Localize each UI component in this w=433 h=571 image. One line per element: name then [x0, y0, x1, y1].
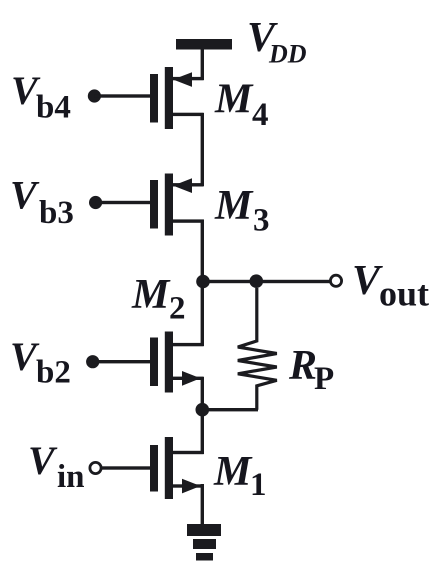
label Vb4	[11, 68, 71, 126]
M4 source lead	[173, 77, 204, 80]
wire output node to Vout terminal	[203, 280, 330, 283]
ground	[187, 524, 221, 561]
svg-text:3: 3	[253, 203, 270, 239]
svg-text:V: V	[10, 173, 40, 218]
svg-text:V: V	[28, 438, 58, 483]
M3 gate bar	[150, 180, 158, 229]
transistor M1 (NMOS input device)	[150, 437, 204, 499]
label Vout	[352, 258, 429, 314]
label M4	[214, 77, 269, 134]
wire Vin to M1 gate	[101, 466, 150, 469]
node Vb4 dot	[88, 89, 101, 102]
terminal Vin (open circle)	[90, 462, 101, 473]
label M2	[131, 272, 186, 327]
transistor M3 (PMOS cascode)	[150, 174, 204, 236]
wire VDD to M4 source	[201, 49, 204, 80]
node X junction dot	[196, 403, 210, 417]
label Vb2	[10, 334, 71, 391]
node Vb3 dot	[89, 196, 102, 209]
M4 gate bar	[150, 74, 158, 123]
transistor M4 (PMOS cascode load)	[150, 67, 204, 129]
wire Vb2 to M2 gate	[93, 360, 150, 363]
M1 source lead	[173, 484, 204, 487]
M2 gate bar	[150, 338, 158, 387]
wire M2 source to node X and M1 drain	[201, 377, 204, 454]
svg-text:4: 4	[252, 97, 269, 133]
label Vin	[28, 438, 85, 495]
M4 channel bar	[165, 67, 173, 129]
node output junction dot A	[196, 275, 210, 289]
node junction dot B (RP tap)	[249, 274, 263, 288]
svg-text:P: P	[314, 361, 334, 397]
M4 drain lead	[173, 113, 204, 116]
svg-text:b3: b3	[39, 195, 74, 231]
svg-text:2: 2	[169, 291, 186, 327]
M3 drain lead	[173, 219, 204, 222]
M2 source arrow	[182, 371, 201, 386]
M3 channel bar	[165, 174, 173, 236]
svg-text:R: R	[288, 343, 317, 389]
M3 source arrow	[173, 178, 192, 193]
label VDD	[247, 15, 307, 69]
label M3	[214, 183, 270, 239]
M2 source lead	[173, 377, 204, 380]
M2 drain lead	[173, 343, 204, 346]
label M1	[213, 449, 267, 503]
VDD supply bar	[176, 39, 232, 50]
wire Vb3 to M3 gate	[96, 201, 150, 204]
svg-text:1: 1	[250, 467, 267, 503]
svg-text:M: M	[214, 77, 254, 123]
M1 gate bar	[150, 445, 158, 492]
svg-text:b2: b2	[36, 355, 71, 391]
label Vb3	[10, 173, 74, 232]
M1 source arrow	[182, 479, 201, 494]
node Vb2 dot	[86, 355, 99, 368]
wire M4 drain to M3 source	[201, 113, 204, 186]
wire Vb4 to M4 gate	[94, 94, 150, 97]
svg-text:M: M	[213, 449, 253, 495]
svg-text:b4: b4	[36, 90, 71, 126]
svg-text:DD: DD	[268, 40, 307, 69]
M1 drain lead	[173, 451, 204, 454]
svg-text:M: M	[214, 183, 254, 229]
M4 source arrow	[173, 72, 192, 87]
wire RP bottom to source node	[202, 408, 258, 411]
wire M3 drain to output node and down to M2 drain	[201, 220, 204, 347]
svg-text:in: in	[57, 459, 85, 495]
resistor RP	[238, 288, 277, 410]
svg-text:out: out	[379, 274, 429, 314]
M3 source lead	[173, 183, 204, 186]
wire M1 source to ground	[201, 484, 204, 525]
M2 channel bar	[165, 332, 173, 393]
terminal Vout (open circle)	[330, 275, 341, 286]
label RP	[288, 343, 334, 397]
M1 channel bar	[165, 437, 173, 499]
transistor M2 (NMOS cascode)	[150, 332, 204, 393]
svg-text:M: M	[131, 272, 171, 318]
